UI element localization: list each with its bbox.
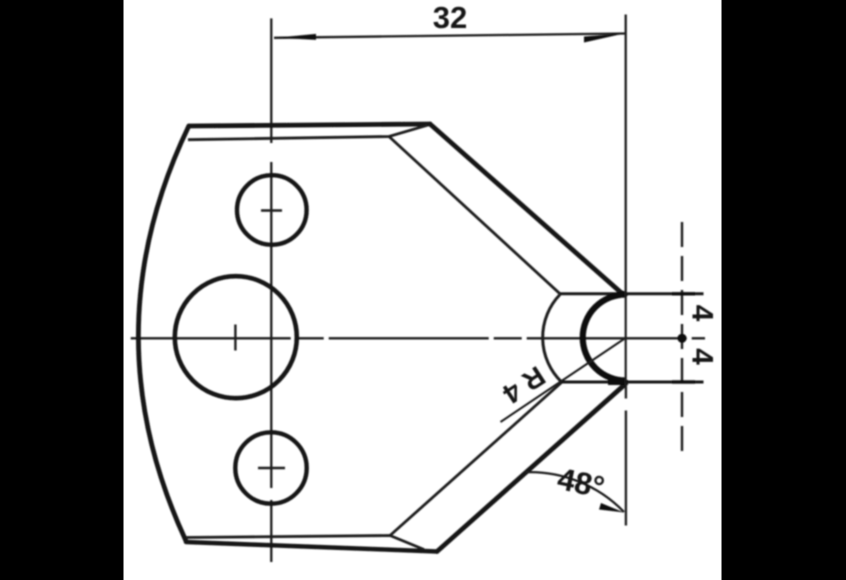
bevel line: bottom inner [186,536,424,550]
R4 tip arc (thick) [583,295,626,381]
vertical line through slot [625,294,627,381]
hole circle: large center [175,276,297,398]
48 deg angle arc [525,472,624,512]
blade outline: bottom edge [186,542,437,552]
outer grind arc at tip [543,295,562,383]
48 deg arrowhead [599,503,624,513]
tip slot top line [560,292,704,295]
large circle vertical center tick [234,325,236,351]
bevel line: top-right inner diagonal [389,137,560,294]
dim 4/4: top tick [672,292,695,295]
hole circle: bottom small [235,432,306,503]
bevel line: top inner [188,125,428,140]
blade outline: top edge [189,124,430,126]
top circle horizontal center tick [261,209,282,211]
bevel line: bottom-right inner diagonal [390,383,562,536]
dim 4/4: bottom tick [672,380,695,383]
svg-text:4: 4 [686,348,719,365]
blade outline: top-right diagonal [430,124,626,294]
right black scan bar [722,0,846,580]
dim 32: right extension line upper [625,15,627,295]
dim 32: right arrowhead [584,34,624,43]
hole circle: top small [237,175,307,245]
dim 4/4: middle dot [677,334,686,343]
tip slot bottom line thick part [608,380,628,385]
vertical centerline [270,18,272,562]
bottom circle horizontal center tick [258,467,285,469]
svg-text:32: 32 [433,0,467,35]
blade outline: bottom-right diagonal [437,382,626,552]
left black scan bar [0,0,124,580]
dim 4/4: dashed dimension line [681,222,683,455]
svg-text:4: 4 [686,305,719,322]
tip slot bottom line [562,381,704,384]
dim 32 extension continues to angle arc [625,382,627,526]
dim 32: left arrowhead [276,34,316,40]
dim 32: dimension line [274,34,625,38]
blade outline: left curved edge [138,126,188,541]
horizontal centerline [131,337,705,339]
R4 leader line [501,338,626,422]
